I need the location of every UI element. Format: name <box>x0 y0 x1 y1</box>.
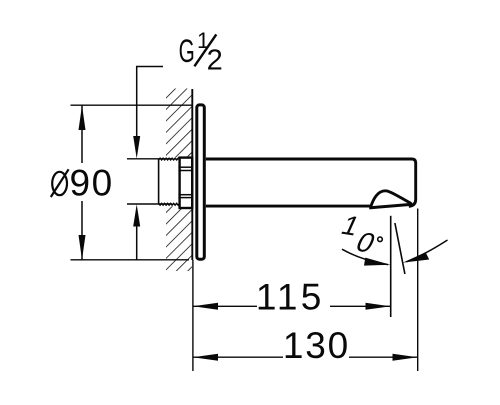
arrow 130 left <box>193 354 218 361</box>
angle arc right <box>407 240 448 262</box>
svg-text:2: 2 <box>207 44 223 76</box>
extension line plate top <box>71 104 192 106</box>
arrow 115 right <box>366 303 391 310</box>
arrow G1/2 up <box>133 204 140 226</box>
dimension line ø90 bottom segment <box>81 201 83 260</box>
dimension line 115 right segment <box>330 305 391 307</box>
extension line thread top <box>127 158 172 160</box>
svg-text:115: 115 <box>256 276 325 317</box>
svg-text:130: 130 <box>283 325 350 366</box>
svg-text:90: 90 <box>70 162 114 203</box>
dimension line ø90 top segment <box>81 105 83 163</box>
wall hatch upper <box>166 89 192 158</box>
arrow ø90 up <box>79 105 86 130</box>
arrow angle left <box>364 258 391 266</box>
arrow ø90 down <box>79 235 86 260</box>
arrow 130 right <box>393 354 418 361</box>
svg-text:G: G <box>179 32 195 69</box>
thread top serration <box>159 158 180 160</box>
wall surface line <box>191 89 193 260</box>
label G1/2 <box>179 28 223 76</box>
nut body <box>180 158 193 208</box>
spout tube bottom edge <box>206 205 371 208</box>
label ø90 <box>51 162 114 203</box>
arrow angle right <box>403 252 429 262</box>
wall hatch lower <box>166 206 192 271</box>
nut chamfer lines bottom <box>178 194 191 196</box>
thread bottom serration <box>159 203 180 205</box>
G1/2 leader elbow <box>137 67 163 137</box>
angle reference line vertical <box>390 216 392 317</box>
dimension line 130 right segment <box>349 356 418 358</box>
extension line wall to dims <box>192 260 194 371</box>
extension line spout tip <box>417 209 419 372</box>
arrow G1/2 down <box>133 136 140 159</box>
escutcheon plate <box>197 105 205 259</box>
spout tube top edge <box>206 159 416 206</box>
outlet lip bottom <box>369 204 412 208</box>
angle line 10 deg <box>395 223 405 274</box>
outlet hump curve <box>371 191 412 208</box>
label 10 deg <box>337 210 382 259</box>
extension line plate bottom <box>71 259 190 261</box>
extension line thread bottom <box>127 203 172 205</box>
arrow 115 left <box>193 303 218 310</box>
dimension line 115 left segment <box>193 305 257 307</box>
thread left edge <box>158 160 160 205</box>
nut chamfer lines top <box>178 166 191 168</box>
dimension line 130 left segment <box>193 356 283 358</box>
dimension line G1/2 lower segment <box>136 226 138 261</box>
angle arc left <box>342 249 388 264</box>
